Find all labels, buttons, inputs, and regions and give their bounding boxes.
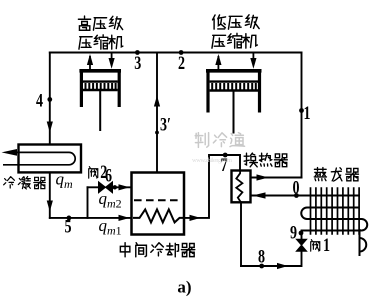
node 7 [223,153,228,158]
liquid level dashed line [134,199,182,201]
mass flow labels q_m, q_m1, q_m2 [56,170,122,238]
wire: valve 2 to cooler wall via node 6 [113,186,131,188]
evaporator finned coil [301,187,367,256]
arrow HX vapor outlet (to the right) [257,174,269,180]
label: 阀2 valve2 char [89,167,98,179]
arrow evaporator outlet into HX (pointing left) [253,192,266,198]
HX internal coil [236,171,242,203]
wire: q_m2 branch to valve 2 [88,186,99,188]
node 0 [294,193,299,198]
svg-text:www.zhileng.com: www.zhileng.com [192,157,232,164]
wire: top header from condenser drop to LP suction drop [50,52,302,54]
wire: q_m2 branch riser [87,187,89,218]
arrow on node 8 line (pointing right) [277,263,288,269]
arrow q_m1 into cooler [119,215,130,221]
wire: evaporator outlet line through node 0 to HX [251,195,360,197]
row 4 [301,230,362,232]
HP discharge stub with up arrow [87,54,93,70]
valve 1 (vertical bowtie) [296,239,306,251]
node 6 [113,185,117,189]
condenser water outlet arrow (left) [2,149,18,156]
svg-text:3′: 3′ [160,113,171,135]
label: 高压级 (high-pressure stage) [78,16,90,30]
label: 压缩机 (compressor, HP) [79,37,92,49]
label: 低压级 (low-pressure stage) [213,15,226,29]
heat exchanger box U-HX [232,171,251,203]
intermediate cooler box [132,173,185,235]
cooler internal coil [133,209,183,222]
row 2 [307,207,359,209]
label: 冷凝器 (condenser) [4,177,15,188]
wire: bottom horizontal from condenser outlet to intermediate cooler (q_m1 line) [50,217,131,219]
LP discharge stub with up arrow [215,54,221,70]
condenser cooling-water U-tube [3,152,75,164]
label: 压缩机 (compressor, LP) [212,35,226,48]
CJK labels [4,15,359,257]
svg-text:2: 2 [178,52,185,74]
wire: condenser outlet vertical down to node 5 line [49,172,51,218]
svg-text:qm1: qm1 [99,216,122,238]
up arrow on 3-prime riser [154,96,160,107]
LP suction stub with down arrow [250,53,256,69]
svg-text:a): a) [177,278,191,297]
arrow into condenser (on inlet drop) [47,122,53,133]
svg-text:qm2: qm2 [99,189,122,211]
label: 中间冷却器 (intermediate cooler) [120,243,130,257]
wire: right vertical from header down to heat-exchanger outlet [301,53,303,178]
wire: valve 1 top to evaporator row 4 [301,231,303,240]
high-pressure compressor U-HP [79,71,121,131]
svg-text:3: 3 [134,52,141,74]
svg-text:9: 9 [290,222,297,244]
low-pressure compressor U-LP [206,71,262,134]
left return bend rows 2-3 [301,208,307,220]
wire: HX outlet horizontal to right riser [251,177,302,179]
arrow q_m2 into cooler (after node 6) [119,184,130,190]
svg-text:0: 0 [292,177,299,199]
svg-text:8: 8 [258,245,265,267]
label: 阀1 valve1 char [311,240,320,252]
arrow on cooler outlet toward riser [190,215,201,221]
HP suction stub with down arrow [109,53,115,69]
node 1 [299,108,304,113]
right return bend rows 3-4 [362,219,368,231]
svg-text:5: 5 [64,215,71,237]
label: 蒸发器 (evaporator) [314,168,326,181]
node 4 [47,97,52,102]
svg-text:4: 4 [36,89,44,111]
arrow on condenser outlet drop [47,201,53,212]
watermark 制冷通 [195,133,244,148]
wire: HX coil outlet down from box bottom [240,202,242,266]
node 2 [179,50,184,55]
wire: cooler outlet to riser up to node 7 line [184,155,240,218]
label: 换热器 (heat exchanger) [244,153,257,167]
hanging end tube with bend [359,229,361,256]
node 9 [299,231,304,236]
svg-text:2: 2 [100,161,107,183]
node 5 [67,216,72,221]
fins [311,187,360,234]
node 8 [259,264,264,269]
valve 2 (horizontal bowtie) [99,182,113,193]
row 3 [307,218,362,220]
condenser box [19,145,82,173]
node 3 [135,50,140,55]
wire: 3-prime riser from cooler top to header [156,53,158,173]
state point number labels [36,52,330,297]
svg-text:1: 1 [323,234,330,256]
svg-text:1: 1 [303,102,310,124]
wire: bottom line from node 8 to valve 1 riser [241,251,302,266]
node 3-prime marker [155,131,159,135]
wire: left vertical from header down to condenser [49,53,51,145]
